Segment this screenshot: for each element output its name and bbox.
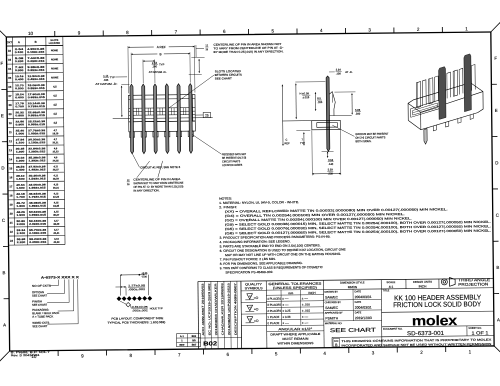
svg-text:E: E	[1, 113, 4, 118]
note groove	[332, 125, 388, 144]
svg-text:=O: =O	[254, 319, 259, 323]
svg-text:10: 10	[28, 31, 34, 36]
svg-text:10: 10	[9, 121, 13, 125]
svg-text:INCH: INCH	[419, 284, 428, 288]
svg-text:D: D	[1, 166, 4, 171]
svg-text:SHEET NO.: SHEET NO.	[468, 327, 482, 330]
svg-text:± 0.25: ± 0.25	[282, 309, 290, 313]
svg-text:09: 09	[9, 112, 13, 116]
svg-text:1.993±.015: 1.993±.015	[29, 214, 47, 217]
svg-text:CHECKED BY: CHECKED BY	[325, 301, 342, 304]
svg-text:3.56: 3.56	[328, 158, 334, 162]
svg-text:F: F	[494, 56, 497, 61]
svg-text:2004/03/31: 2004/03/31	[355, 295, 372, 299]
svg-text:NONE: NONE	[51, 76, 59, 79]
svg-text:06: 06	[8, 85, 12, 89]
svg-text:SEE CHART: SEE CHART	[32, 294, 47, 298]
isometric view	[408, 54, 484, 145]
svg-text:05: 05	[8, 76, 12, 80]
notes	[219, 194, 492, 275]
svg-text:NONE: NONE	[51, 67, 59, 70]
svg-text:.045: .045	[103, 78, 109, 82]
document number row	[382, 326, 494, 338]
svg-text:CKT: CKT	[7, 40, 13, 44]
svg-text:34,35: 34,35	[53, 205, 60, 208]
zone letters right	[491, 56, 500, 323]
svg-text:C: C	[2, 218, 5, 223]
svg-text:1.593±.015: 1.593±.015	[29, 177, 47, 180]
scale cell	[387, 279, 407, 289]
front view datum line	[113, 118, 213, 119]
svg-text:NONE: NONE	[51, 58, 59, 61]
svg-text:04: 04	[8, 67, 12, 71]
side view body	[311, 91, 351, 129]
svg-text:C: C	[496, 213, 499, 218]
svg-text:38,39: 38,39	[53, 223, 60, 226]
svg-text:1.293±.015: 1.293±.015	[28, 150, 46, 153]
svg-text:2.200: 2.200	[17, 241, 26, 244]
svg-text:2004/03/31: 2004/03/31	[355, 306, 372, 310]
svg-text:(UNLESS SPECIFIED): (UNLESS SPECIFIED)	[273, 286, 317, 290]
svg-text:18,19: 18,19	[52, 132, 59, 135]
svg-text:± ----: ± ----	[302, 321, 308, 325]
dim pin width right	[189, 57, 205, 74]
svg-text:0.300: 0.300	[15, 69, 24, 72]
svg-text:4 PLACES: 4 PLACES	[267, 297, 281, 301]
svg-text:20,21: 20,21	[52, 141, 59, 144]
svg-text:SEE CHART: SEE CHART	[32, 303, 47, 307]
svg-text:1.000: 1.000	[16, 132, 25, 135]
svg-text:16: 16	[9, 175, 13, 179]
svg-text:0.700: 0.700	[15, 105, 24, 108]
zone letters left	[0, 61, 9, 328]
svg-text:.220: .220	[328, 171, 334, 175]
svg-text:12: 12	[9, 139, 13, 143]
side view pcb line	[282, 120, 311, 122]
side dim 8.5	[315, 92, 323, 111]
svg-text:1.900: 1.900	[16, 214, 25, 217]
svg-text:DATE: DATE	[355, 301, 362, 304]
svg-text:BY MORE THAN 0.25(.010) IN ANY: BY MORE THAN 0.25(.010) IN ANY DIRECTION…	[214, 49, 284, 54]
svg-text:21: 21	[10, 221, 14, 225]
svg-text:28,29: 28,29	[53, 178, 60, 181]
svg-text:1.493±.015: 1.493±.015	[28, 168, 46, 171]
svg-text:DESCRIPTION 4699-0607: DESCRIPTION 4699-0607	[233, 282, 238, 335]
svg-text:EC NO: UCP2019-2523 B02: EC NO: UCP2019-2523 B02	[207, 283, 212, 336]
svg-text:TYP: TYP	[110, 75, 115, 79]
svg-text:32,33: 32,33	[53, 196, 60, 199]
pcb layout	[107, 272, 166, 325]
svg-text:HOLE TYP: HOLE TYP	[150, 307, 163, 310]
svg-text:A-6373-X XXX X X: A-6373-X XXX X X	[41, 275, 80, 279]
svg-text:D: D	[495, 160, 498, 165]
svg-text:2.193±.015: 2.193±.015	[29, 232, 47, 235]
svg-text:± ----: ± ----	[282, 303, 288, 307]
revision history block	[198, 281, 242, 349]
design units cell	[413, 279, 439, 289]
svg-text:2.54: 2.54	[152, 61, 158, 65]
svg-text:2019/08/03 UCP2019-2523: 2019/08/03 UCP2019-2523	[227, 282, 232, 335]
note recessed gate	[192, 134, 246, 167]
svg-text:42,43: 42,43	[53, 241, 60, 244]
dim pin width left	[95, 74, 127, 86]
svg-text:mm: mm	[288, 291, 294, 295]
svg-text:1.500: 1.500	[16, 178, 25, 181]
revision boxes left	[176, 334, 200, 347]
svg-text:1.400: 1.400	[16, 169, 25, 172]
part number legend	[32, 275, 81, 328]
note centerline bottom	[126, 161, 183, 193]
svg-text:CHAD/WILKER 2019/08/03: CHAD/WILKER 2019/08/03	[220, 282, 225, 335]
svg-text:0 PLACE: 0 PLACE	[267, 321, 279, 325]
signature rows	[324, 289, 382, 348]
title block frame	[198, 278, 494, 349]
svg-text:BOTH SIDES.: BOTH SIDES.	[355, 139, 371, 143]
svg-text:0.800: 0.800	[15, 114, 24, 117]
svg-text:0.893±.015: 0.893±.015	[28, 114, 46, 117]
svg-text:0.293±.015: 0.293±.015	[27, 60, 45, 63]
general tolerances box	[266, 280, 324, 348]
svg-text:25: 25	[205, 114, 209, 118]
svg-text:0.200: 0.200	[15, 60, 24, 63]
svg-text:0.493±.015: 0.493±.015	[28, 78, 46, 81]
svg-text:± .015: ± .015	[302, 309, 310, 313]
svg-text:B: B	[159, 52, 161, 56]
svg-text:A: A	[18, 40, 20, 44]
dim B	[131, 51, 190, 83]
svg-text:1.700: 1.700	[16, 196, 25, 199]
svg-text:B: B	[496, 265, 499, 270]
svg-text:1.800: 1.800	[16, 205, 25, 208]
svg-text:B07: B07	[192, 344, 197, 347]
svg-text:=O: =O	[254, 308, 259, 312]
svg-text:1.893±.015: 1.893±.015	[29, 205, 47, 208]
svg-text:0.693±.015: 0.693±.015	[28, 96, 46, 99]
svg-text:A-1: A-1	[180, 335, 185, 338]
side view pin	[326, 76, 330, 151]
svg-text:2.000: 2.000	[17, 223, 26, 226]
svg-text:0.600: 0.600	[15, 96, 24, 99]
svg-text:± ----: ± ----	[282, 297, 288, 301]
svg-text:2.100: 2.100	[17, 232, 26, 235]
svg-text:18: 18	[9, 194, 13, 198]
svg-text:AT DATUM -D-: AT DATUM -D-	[149, 70, 167, 74]
third angle projection cell	[441, 277, 490, 287]
svg-text:17: 17	[9, 184, 13, 188]
svg-text:1.600: 1.600	[16, 187, 25, 190]
svg-text:DESIGN UNITS: DESIGN UNITS	[413, 280, 432, 284]
svg-text:1.693±.015: 1.693±.015	[29, 187, 47, 190]
svg-text:0.900: 0.900	[16, 123, 25, 126]
svg-text:2.293±.015: 2.293±.015	[29, 241, 47, 244]
svg-text:SAM/EC: SAM/EC	[325, 295, 339, 299]
svg-text:ADD 4699-0607 2019/08/03: ADD 4699-0607 2019/08/03	[201, 283, 206, 336]
dim 2.54 TYP	[143, 59, 167, 83]
disclaimer	[332, 336, 492, 348]
note circuit 1	[133, 154, 181, 170]
svg-text:.140: .140	[328, 162, 334, 166]
svg-text:1.093±.015: 1.093±.015	[28, 132, 46, 135]
molex logo	[382, 311, 494, 329]
svg-text:.200: .200	[355, 112, 361, 116]
svg-text:± 0.38: ± 0.38	[282, 315, 290, 319]
svg-text:5/9: 5/9	[192, 339, 196, 342]
svg-text:02: 02	[8, 49, 12, 53]
svg-text:19: 19	[10, 203, 14, 207]
svg-text:1.300: 1.300	[16, 160, 25, 163]
svg-text:LOCATED: LOCATED	[49, 42, 61, 45]
svg-text:5.59: 5.59	[328, 167, 334, 171]
svg-text:Rev. S 2043/0/11: Rev. S 2043/0/11	[11, 353, 41, 357]
svg-text:4:1: 4:1	[389, 285, 394, 289]
svg-text:DATE: DATE	[355, 311, 362, 314]
svg-text:24,25: 24,25	[53, 159, 60, 162]
svg-text:TYP: TYP	[300, 141, 305, 145]
svg-text:.100: .100	[336, 71, 342, 75]
svg-text:SAM/EC: SAM/EC	[325, 306, 339, 310]
print info bottom left	[11, 350, 51, 357]
svg-text:± ----: ± ----	[302, 296, 308, 300]
svg-text:8.5: 8.5	[317, 96, 321, 100]
svg-text:MM/IN: MM/IN	[348, 285, 358, 289]
side dim 5.59	[312, 130, 341, 176]
svg-text:FRICTION LOCK SOLID BODY: FRICTION LOCK SOLID BODY	[393, 301, 481, 309]
dim pin height left	[121, 84, 130, 117]
svg-text:±.015: ±.015	[302, 95, 309, 99]
svg-text:=O: =O	[254, 296, 259, 300]
svg-text:B: B	[3, 270, 6, 275]
svg-text:± ----: ± ----	[302, 315, 308, 319]
svg-text:1.14: 1.14	[103, 74, 109, 78]
svg-text:.100: .100	[152, 64, 158, 68]
svg-text:03: 03	[8, 58, 12, 62]
side dim 7 typ	[296, 130, 310, 145]
svg-text:AT DATUM -D-: AT DATUM -D-	[95, 82, 117, 86]
svg-text:23: 23	[10, 239, 14, 243]
svg-text:REF: REF	[284, 141, 290, 145]
svg-text:1.393±.015: 1.393±.015	[28, 159, 46, 162]
svg-text:NONE: NONE	[51, 49, 59, 52]
side dim C REF	[282, 85, 291, 146]
svg-text:0.393±.015: 0.393±.015	[27, 69, 45, 72]
svg-text:LOCATION VARIES: LOCATION VARIES	[222, 163, 242, 167]
circuit size chart	[6, 36, 65, 245]
svg-text:± ----: ± ----	[283, 321, 289, 325]
svg-text:SPECIFICATION PS-45499-002.: SPECIFICATION PS-45499-002.	[225, 270, 273, 275]
svg-text:C: C	[285, 138, 287, 142]
svg-text:26,27: 26,27	[53, 168, 60, 171]
svg-text:3 PLACES: 3 PLACES	[267, 303, 281, 307]
boxed dim 25	[195, 112, 210, 117]
svg-text:AT -D-: AT -D-	[345, 70, 353, 74]
svg-text:36,37: 36,37	[53, 214, 60, 217]
svg-text:.335: .335	[317, 100, 323, 104]
side dim 3.56	[322, 152, 334, 166]
svg-text:08: 08	[9, 103, 13, 107]
svg-text:B: B	[35, 40, 37, 44]
svg-text:.032±.002: .032±.002	[132, 309, 149, 312]
svg-text:15: 15	[9, 166, 13, 170]
svg-text:APPROVED BY: APPROVED BY	[325, 312, 343, 315]
svg-text:E: E	[495, 108, 498, 113]
side dim H	[295, 82, 326, 119]
svg-text:2.54: 2.54	[336, 68, 342, 72]
svg-text:1.193±.015: 1.193±.015	[28, 141, 46, 144]
svg-text:0.793±.015: 0.793±.015	[28, 105, 46, 108]
side dim latch	[334, 92, 361, 116]
dimension style cell	[323, 278, 493, 289]
svg-text:1.793±.015: 1.793±.015	[29, 196, 47, 199]
svg-text:NO OF CKTS: NO OF CKTS	[32, 284, 51, 288]
front view standoffs	[129, 131, 193, 137]
svg-text:1.100: 1.100	[16, 141, 25, 144]
svg-text:0.593±.015: 0.593±.015	[28, 87, 46, 90]
note slots located	[169, 69, 243, 108]
svg-text:SEE CHART: SEE CHART	[215, 76, 232, 80]
svg-text:A: A	[3, 322, 6, 327]
front view header body	[128, 95, 195, 132]
svg-text:5.08: 5.08	[355, 108, 361, 112]
svg-text:14: 14	[9, 157, 13, 161]
svg-text:± .010: ± .010	[302, 302, 310, 306]
svg-text:0.100: 0.100	[15, 51, 24, 54]
svg-text:B02: B02	[203, 341, 217, 347]
svg-text:2019/12/03: 2019/12/03	[355, 316, 372, 320]
svg-text:ANGULAR ±1/2°: ANGULAR ±1/2°	[278, 327, 313, 331]
svg-text:07: 07	[8, 94, 12, 98]
svg-text:F: F	[0, 61, 3, 66]
svg-text:TYPICAL PCB THICKNESS: 1.60(.0: TYPICAL PCB THICKNESS: 1.60(.063)	[107, 320, 165, 325]
svg-text:.050±.002: .050±.002	[128, 288, 146, 291]
svg-text:B02: B02	[192, 335, 197, 338]
svg-text:DOCUMENT NO.: DOCUMENT NO.	[383, 328, 403, 331]
svg-text:SCALE: SCALE	[387, 280, 396, 284]
svg-text:DATE: DATE	[355, 290, 362, 293]
svg-text:0.500: 0.500	[15, 87, 24, 90]
svg-text:0.993±.015: 0.993±.015	[28, 123, 46, 126]
dim A REF	[128, 44, 195, 93]
svg-text:A = TUBE PACK: A = TUBE PACK	[32, 314, 53, 318]
svg-text:40,41: 40,41	[53, 232, 60, 235]
quality symbols box	[241, 281, 267, 349]
svg-text:2019/08/03 CHAD/WILKER: 2019/08/03 CHAD/WILKER	[214, 283, 219, 335]
svg-text:0.400: 0.400	[15, 78, 24, 81]
zone labels top	[28, 26, 468, 36]
svg-text:22,23: 22,23	[53, 150, 60, 153]
title text	[383, 288, 482, 309]
svg-text:30,31: 30,31	[53, 187, 60, 190]
svg-text:20: 20	[10, 212, 14, 216]
side dim top	[329, 67, 353, 75]
svg-text:2.093±.015: 2.093±.015	[29, 223, 47, 226]
svg-text:13: 13	[9, 148, 13, 152]
svg-text:2 PLACES: 2 PLACES	[267, 309, 281, 313]
svg-text:H ±0.38: H ±0.38	[299, 91, 309, 95]
svg-text:DRAFT WHERE APPLICABLE: DRAFT WHERE APPLICABLE	[270, 332, 320, 337]
front view pins	[130, 84, 193, 154]
svg-text:TYP: TYP	[159, 62, 164, 66]
svg-text:1.200: 1.200	[16, 151, 25, 154]
svg-text:22: 22	[10, 230, 14, 234]
svg-text:PROJECTION: PROJECTION	[458, 282, 488, 287]
svg-text:OF PIN AT -D- BY MORE THAN 0.2: OF PIN AT -D- BY MORE THAN 0.25(.010)	[133, 184, 183, 189]
svg-text:TITLE: TITLE	[383, 289, 390, 292]
svg-text:IN ANY DIRECTION.: IN ANY DIRECTION.	[133, 188, 159, 192]
svg-text:INCH: INCH	[308, 291, 315, 295]
svg-text:PSMITH: PSMITH	[325, 316, 338, 320]
svg-text:DIMENSION STYLE: DIMENSION STYLE	[340, 280, 365, 284]
zone labels bottom	[31, 346, 471, 359]
svg-text:MATERIAL NO.: MATERIAL NO.	[325, 322, 343, 325]
svg-text:1 PLACE: 1 PLACE	[267, 315, 279, 319]
note centerline top	[196, 42, 284, 57]
svg-text:SYMBOLS: SYMBOLS	[245, 286, 263, 290]
svg-text:REF: REF	[179, 344, 185, 347]
svg-text:1 OF 1: 1 OF 1	[471, 330, 489, 335]
svg-text:SEE CHART: SEE CHART	[330, 328, 377, 334]
svg-text:WITHIN DIMENSIONS: WITHIN DIMENSIONS	[277, 341, 313, 345]
svg-text:SEE CHART: SEE CHART	[32, 324, 47, 328]
svg-text:0.193±.015: 0.193±.015	[27, 51, 45, 54]
svg-text:DRAWN BY: DRAWN BY	[325, 291, 339, 294]
svg-text:-0.00: -0.00	[141, 275, 147, 278]
svg-text:A REF: A REF	[157, 45, 166, 49]
